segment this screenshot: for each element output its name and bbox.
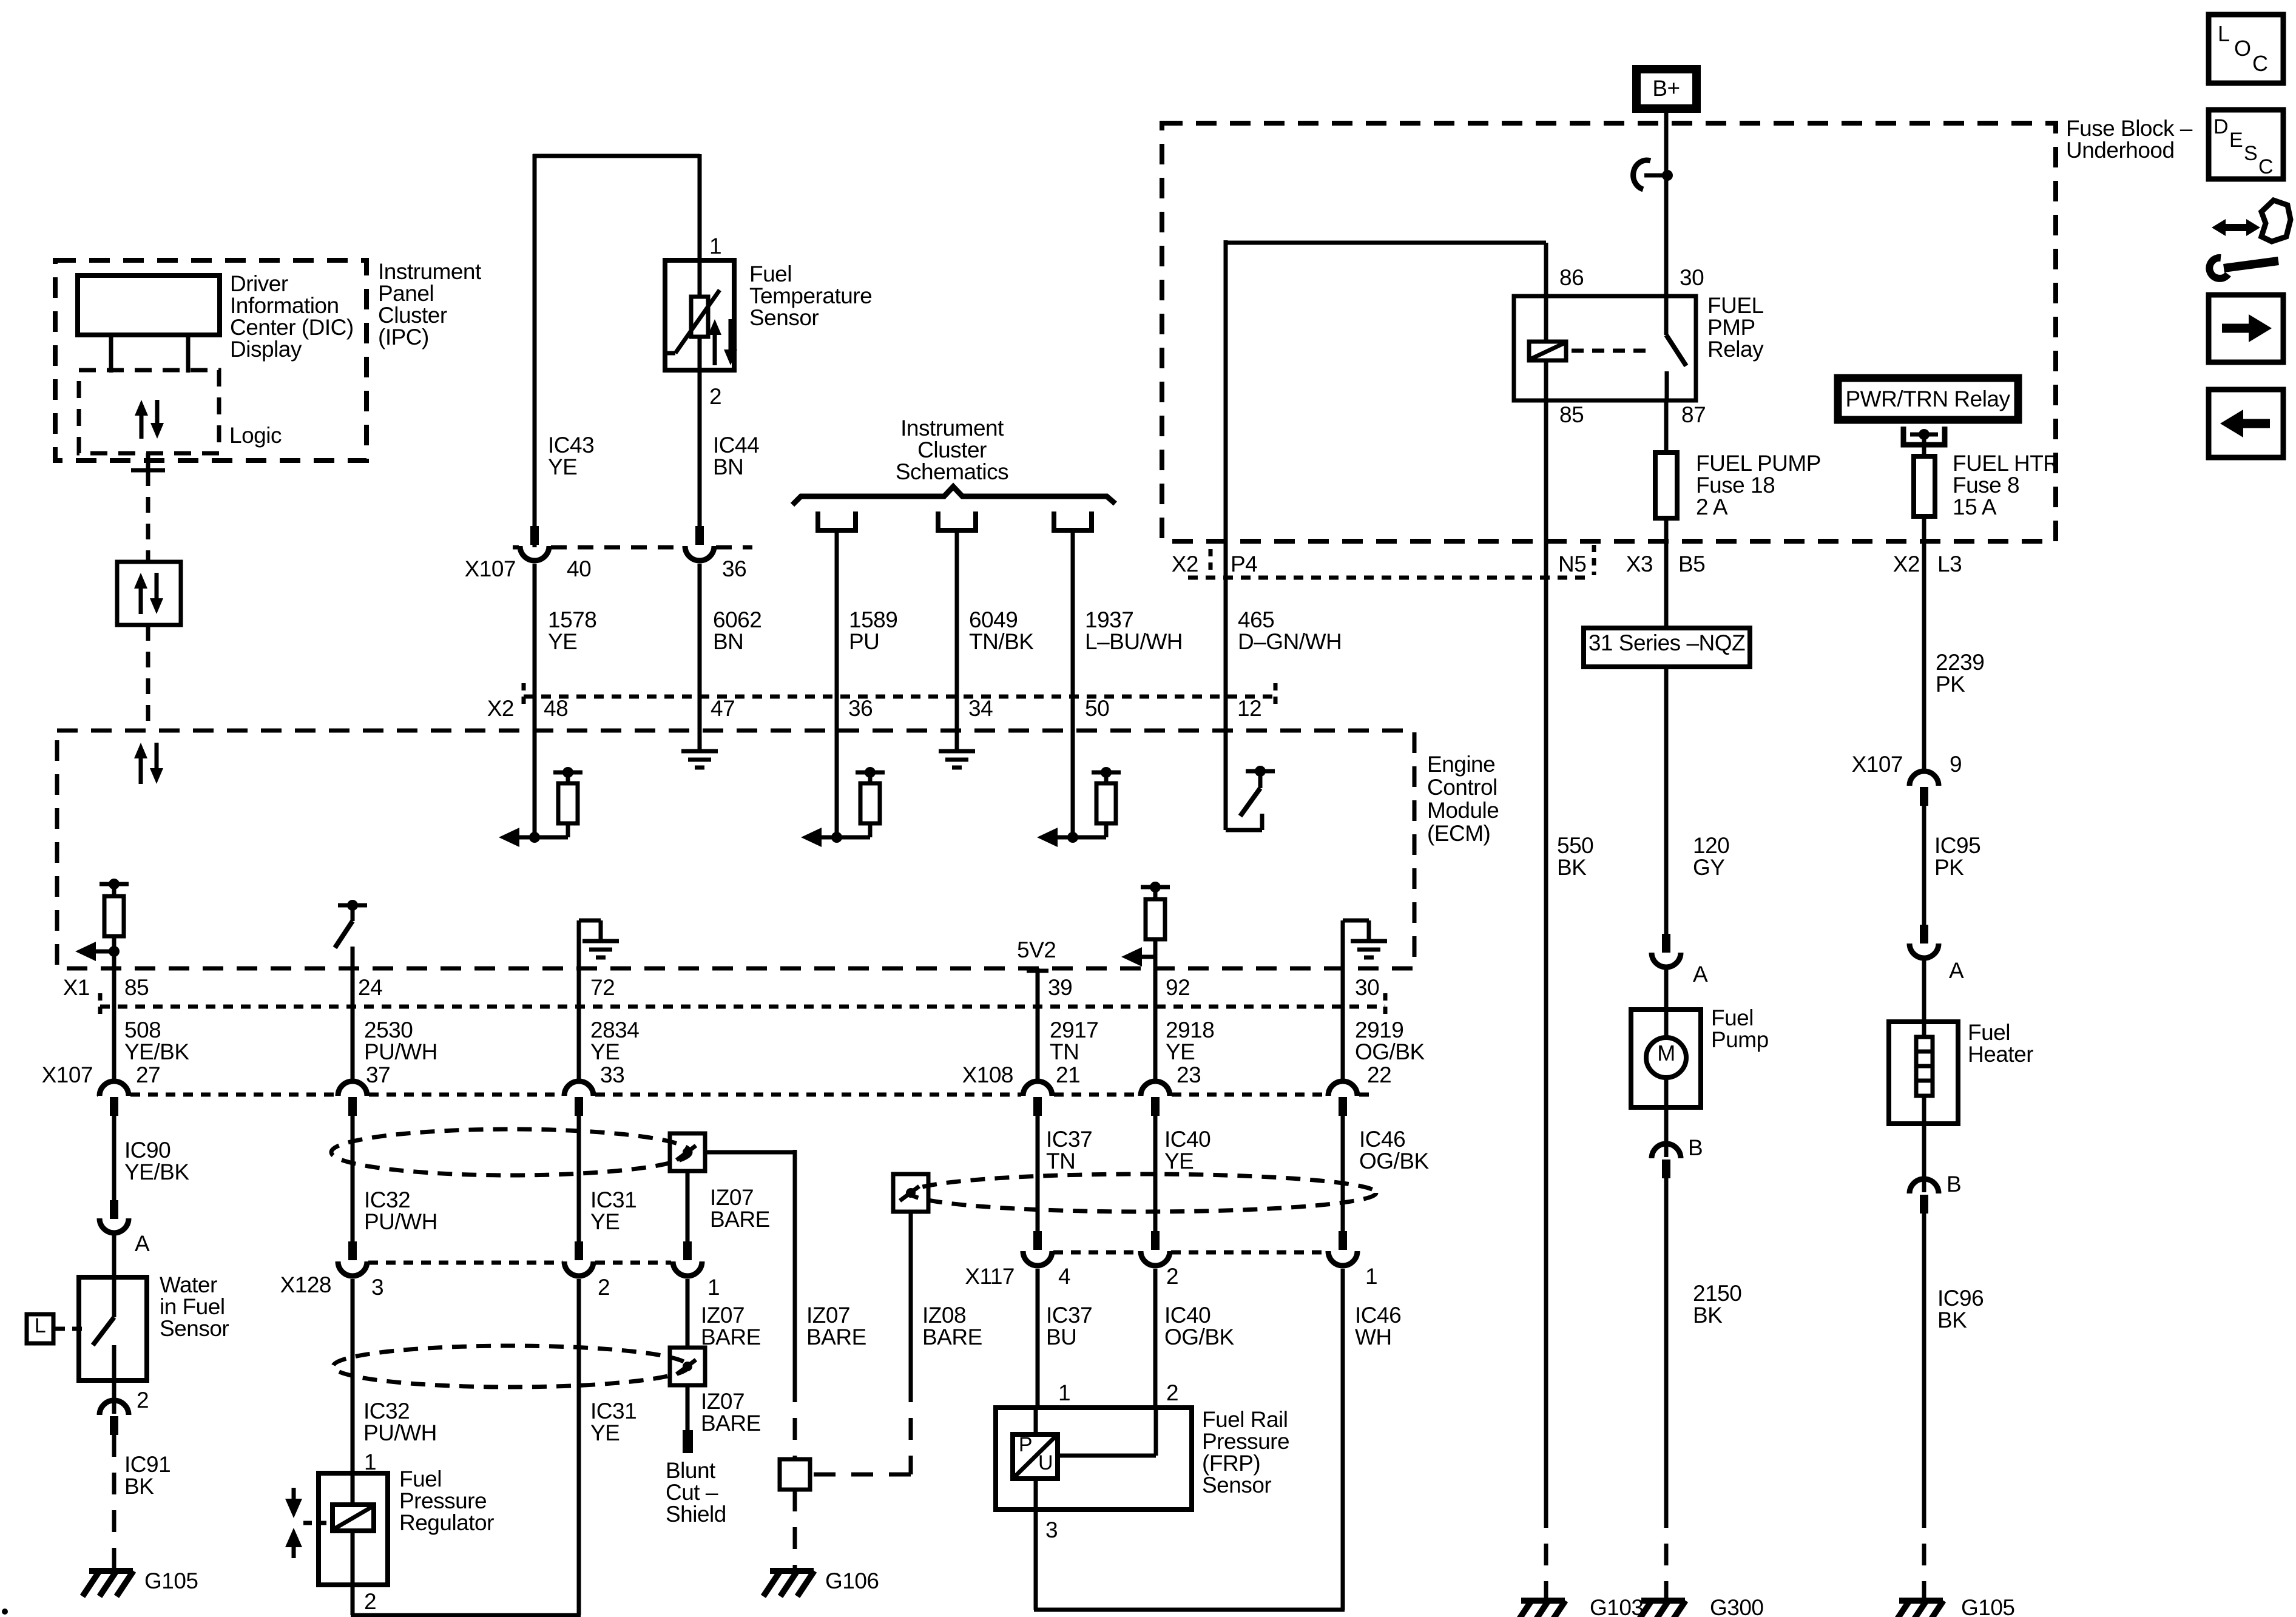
svg-text:X107: X107 xyxy=(465,556,516,581)
label IC46 WH xyxy=(1355,1303,1401,1349)
resistor tap on pin 85 branch xyxy=(100,879,129,936)
label IC95 PK xyxy=(1934,833,1980,880)
label IC37 TN xyxy=(1046,1127,1092,1173)
svg-text:X108: X108 xyxy=(962,1062,1013,1087)
up/down arrows inside ECM xyxy=(134,743,163,784)
label pin 72 xyxy=(590,975,615,1000)
label relay pin 86 xyxy=(1559,265,1584,290)
connector pin 2 wif xyxy=(100,1380,129,1435)
label 5V2 xyxy=(1017,937,1056,962)
wire 2150 BK dashed tail xyxy=(1664,1506,1669,1601)
svg-text:P: P xyxy=(1019,1433,1032,1456)
svg-text:47: 47 xyxy=(711,696,735,721)
svg-text:IZ07: IZ07 xyxy=(701,1303,745,1328)
wire pump to B xyxy=(1664,1107,1669,1157)
label FRP pin 2 xyxy=(1166,1380,1178,1405)
svg-text:1: 1 xyxy=(707,1275,720,1300)
label 1589 PU xyxy=(849,607,897,654)
svg-text:Logic: Logic xyxy=(229,423,282,448)
label X2 pin 50 xyxy=(1085,696,1109,721)
PWR/TRN relay box xyxy=(1838,378,2018,420)
wire IC46 OG/BK xyxy=(1341,1113,1345,1231)
fuse block X2 connector bracket xyxy=(1188,545,1594,578)
wire pin36 into ECM xyxy=(835,731,839,837)
svg-text:U: U xyxy=(1038,1451,1053,1474)
ground-L on pin 30 xyxy=(1343,920,1387,968)
svg-text:C: C xyxy=(2252,51,2268,76)
svg-text:PMP: PMP xyxy=(1707,315,1755,340)
DESC icon box xyxy=(2209,110,2283,179)
svg-text:2919: 2919 xyxy=(1355,1018,1403,1042)
svg-text:IC31: IC31 xyxy=(590,1187,636,1212)
wire 508 YE/BK xyxy=(112,968,116,1080)
wire IZ07 below square xyxy=(686,1171,690,1244)
svg-text:Control: Control xyxy=(1427,775,1497,800)
label pin A wif xyxy=(135,1231,150,1256)
connector X108 dome x=1904 xyxy=(1141,1081,1170,1116)
svg-text:Shield: Shield xyxy=(666,1502,726,1527)
svg-text:36: 36 xyxy=(722,556,746,581)
label relay pin 30 xyxy=(1680,265,1704,290)
connector X107 dome x=581 xyxy=(338,1081,367,1116)
svg-text:Relay: Relay xyxy=(1707,337,1764,362)
connector X107 dome x=954 xyxy=(564,1081,593,1116)
wire relay 85 to N5 xyxy=(1544,400,1548,541)
svg-text:YE: YE xyxy=(590,1420,620,1445)
svg-text:2: 2 xyxy=(364,1589,376,1614)
svg-text:G105: G105 xyxy=(144,1568,198,1593)
wire 120 GY lower xyxy=(1664,667,1669,934)
harness dashed ellipse right xyxy=(910,1174,1376,1212)
svg-text:B: B xyxy=(1688,1135,1703,1160)
label X2 pin 12 xyxy=(1237,696,1261,721)
svg-text:FUEL PUMP: FUEL PUMP xyxy=(1696,451,1821,476)
wire IC37 BU xyxy=(1036,1269,1040,1408)
svg-text:IC32: IC32 xyxy=(363,1399,410,1423)
svg-text:IC96: IC96 xyxy=(1937,1286,1984,1311)
svg-text:Information: Information xyxy=(230,293,339,318)
svg-text:Cluster: Cluster xyxy=(378,303,447,328)
wire IC95 PK xyxy=(1922,804,1926,925)
svg-text:2 A: 2 A xyxy=(1696,495,1728,519)
svg-text:1: 1 xyxy=(709,234,721,258)
svg-text:22: 22 xyxy=(1367,1062,1391,1087)
label 2918 YE xyxy=(1166,1018,1214,1064)
wire IC43 top loop xyxy=(533,154,700,547)
label X2 L3 xyxy=(1893,552,1962,576)
shield connection square IZ07 lower xyxy=(670,1348,705,1385)
svg-text:BK: BK xyxy=(124,1474,154,1499)
resistor/arrow on pin 36 xyxy=(801,767,885,847)
wire B+ to relay 30 xyxy=(1664,113,1669,296)
svg-text:2834: 2834 xyxy=(590,1018,639,1042)
svg-text:465: 465 xyxy=(1238,607,1274,632)
svg-text:X107: X107 xyxy=(1852,752,1903,777)
label IZ07 BARE upper xyxy=(710,1185,770,1232)
fuel rail pressure sensor box xyxy=(996,1408,1192,1510)
label IC43 YE xyxy=(548,433,594,479)
label pin 30 ecm xyxy=(1355,975,1379,1000)
label IC32 PU/WH upper xyxy=(364,1187,437,1234)
label 2834 YE xyxy=(590,1018,639,1064)
label 550 BK xyxy=(1557,833,1593,880)
label fuel pump pin B xyxy=(1688,1135,1703,1160)
connector X107/X108 dotted line xyxy=(97,1093,1373,1097)
label X2 pin 47 xyxy=(711,696,735,721)
label N5 xyxy=(1558,552,1586,576)
connector X128 pin 2 xyxy=(564,1241,593,1276)
svg-text:PU/WH: PU/WH xyxy=(364,1209,437,1234)
svg-text:in Fuel: in Fuel xyxy=(160,1294,225,1319)
label pin 37 xyxy=(366,1062,390,1087)
svg-text:Sensor: Sensor xyxy=(749,305,819,330)
left arrow icon box xyxy=(2209,390,2283,457)
splice clip on B+ feed xyxy=(1633,160,1673,189)
svg-text:120: 120 xyxy=(1693,833,1729,858)
svg-text:Instrument: Instrument xyxy=(378,259,482,284)
wire IC40 YE xyxy=(1153,1113,1158,1231)
svg-text:1589: 1589 xyxy=(849,607,897,632)
svg-text:L–BU/WH: L–BU/WH xyxy=(1085,629,1183,654)
label X117 pin 4 xyxy=(1058,1264,1070,1289)
label 120 GY xyxy=(1693,833,1729,880)
fuse block underhood dashed box xyxy=(1162,123,2056,541)
svg-text:IC44: IC44 xyxy=(713,433,759,457)
connector X107 pin 36 (IC44) xyxy=(685,526,714,561)
wire relay 86 feed xyxy=(1224,240,1546,541)
svg-text:P4: P4 xyxy=(1231,552,1257,576)
svg-text:39: 39 xyxy=(1048,975,1072,1000)
wire 2917 TN xyxy=(1036,968,1040,1080)
fuel temperature sensor B47 box xyxy=(665,260,734,370)
svg-text:BARE: BARE xyxy=(701,1411,761,1436)
Driver Information Center (DIC) display box xyxy=(78,275,220,335)
IPC connector bracket pin 50 xyxy=(1054,511,1092,530)
wire DIC leg left xyxy=(109,335,113,373)
connector X117 pin 4 xyxy=(1023,1231,1052,1266)
label FPR pin 2 xyxy=(364,1589,376,1614)
connector X107 upper row dotted line xyxy=(513,545,752,550)
svg-text:Pump: Pump xyxy=(1711,1027,1769,1052)
svg-text:B5: B5 xyxy=(1678,552,1705,576)
label X117 pin 2 xyxy=(1166,1264,1178,1289)
instrument panel cluster (IPC) dashed box xyxy=(55,260,366,461)
svg-text:Fuse 18: Fuse 18 xyxy=(1696,473,1775,498)
label X107 upper xyxy=(465,556,516,581)
wire fuse 18 to B5 xyxy=(1664,518,1669,541)
connector X128 dotted line xyxy=(368,1261,671,1265)
svg-text:IC37: IC37 xyxy=(1046,1303,1092,1328)
label pin 22 xyxy=(1367,1062,1391,1087)
svg-text:IC40: IC40 xyxy=(1164,1303,1210,1328)
label Instrument Panel Cluster (IPC) xyxy=(378,259,482,349)
connector X117 pin 2 xyxy=(1141,1231,1170,1266)
label fuel heater pin A xyxy=(1949,958,1964,983)
svg-text:BARE: BARE xyxy=(806,1325,866,1349)
svg-text:Fuse Block –: Fuse Block – xyxy=(2066,116,2193,141)
label Engine Control Module (ECM) xyxy=(1427,752,1499,846)
svg-text:IC91: IC91 xyxy=(124,1452,171,1477)
svg-text:B: B xyxy=(1947,1172,1961,1197)
svg-text:Fuel Rail: Fuel Rail xyxy=(1202,1407,1288,1432)
svg-text:YE: YE xyxy=(1166,1039,1195,1064)
wire 6062 BN xyxy=(698,564,702,731)
svg-text:YE: YE xyxy=(548,629,577,654)
svg-text:Fuel: Fuel xyxy=(1711,1005,1754,1030)
svg-text:(IPC): (IPC) xyxy=(378,325,429,349)
wire FRP pin3 to IC46 xyxy=(1034,1510,1345,1610)
label G105 left xyxy=(144,1568,198,1593)
svg-text:G300: G300 xyxy=(1710,1595,1764,1617)
label X2 pin 36 xyxy=(848,696,873,721)
fuel heater element xyxy=(1916,1022,1933,1124)
label IC37 BU xyxy=(1046,1303,1092,1349)
wire 6049 TN/BK xyxy=(955,530,959,731)
label pin 39 xyxy=(1048,975,1072,1000)
svg-text:508: 508 xyxy=(124,1018,161,1042)
thermistor symbol xyxy=(667,260,720,370)
svg-text:1937: 1937 xyxy=(1085,607,1133,632)
WIF switch xyxy=(93,1277,114,1380)
svg-text:X3: X3 xyxy=(1626,552,1653,576)
label relay pin 87 xyxy=(1681,402,1706,427)
connector-view icon xyxy=(2209,200,2291,279)
label X117 pin 1 xyxy=(1365,1264,1377,1289)
wire splice to ground G106 xyxy=(793,1490,797,1571)
svg-text:2150: 2150 xyxy=(1693,1281,1741,1306)
ground on pin 47 xyxy=(681,731,718,768)
label 2150 BK xyxy=(1693,1281,1741,1328)
wire IC37 TN xyxy=(1036,1113,1040,1231)
wire IC96 dashed tail xyxy=(1922,1506,1926,1601)
connector X107 pin 9 (fuel heater) xyxy=(1909,771,1939,806)
label pin 33 xyxy=(600,1062,624,1087)
svg-text:O: O xyxy=(2234,36,2251,61)
harness dashed ellipse left lower xyxy=(333,1346,689,1387)
svg-text:30: 30 xyxy=(1355,975,1379,1000)
connector X1 dotted line xyxy=(100,993,1385,1020)
svg-text:72: 72 xyxy=(590,975,615,1000)
svg-text:2: 2 xyxy=(709,384,721,409)
label 6049 TN/BK xyxy=(969,607,1034,654)
svg-text:PU/WH: PU/WH xyxy=(364,1039,437,1064)
label IZ07 BARE below X128 xyxy=(701,1303,761,1349)
svg-text:TN: TN xyxy=(1046,1149,1075,1173)
svg-text:33: 33 xyxy=(600,1062,624,1087)
connector X128 pin 1 xyxy=(673,1241,702,1276)
svg-text:5V2: 5V2 xyxy=(1017,937,1056,962)
svg-text:BU: BU xyxy=(1046,1325,1076,1349)
svg-text:Panel: Panel xyxy=(378,281,434,306)
label IC44 BN xyxy=(713,433,759,479)
label 2919 OG/BK xyxy=(1355,1018,1425,1064)
svg-text:2: 2 xyxy=(137,1388,149,1413)
svg-text:1: 1 xyxy=(364,1450,376,1474)
wire 2834 YE xyxy=(577,968,581,1080)
svg-text:36: 36 xyxy=(848,696,873,721)
svg-text:M: M xyxy=(1657,1041,1675,1065)
wire DIC leg right xyxy=(186,335,191,373)
wire 1578 YE xyxy=(533,564,537,697)
svg-text:Driver: Driver xyxy=(230,271,288,296)
svg-text:23: 23 xyxy=(1177,1062,1201,1087)
label IZ08 BARE xyxy=(922,1303,982,1349)
level sensor L box xyxy=(27,1314,85,1343)
svg-text:D: D xyxy=(2213,115,2228,138)
svg-text:2239: 2239 xyxy=(1936,650,1984,675)
connector X108 dome x=2213 xyxy=(1328,1081,1357,1116)
label IZ07 BARE mid-column xyxy=(806,1303,866,1349)
label X3 B5 xyxy=(1626,552,1706,576)
svg-text:TN: TN xyxy=(1050,1039,1079,1064)
svg-text:Cluster: Cluster xyxy=(917,437,987,462)
label Fuel Temperature Sensor xyxy=(749,262,872,330)
label pin 24 xyxy=(358,975,382,1000)
label pin 1 fuel temp sensor xyxy=(709,234,721,258)
svg-text:OG/BK: OG/BK xyxy=(1359,1149,1430,1173)
svg-text:G106: G106 xyxy=(825,1568,879,1593)
svg-text:Instrument: Instrument xyxy=(900,416,1004,441)
wire IC44 below sensor xyxy=(698,370,702,526)
wire IZ07 lower xyxy=(686,1279,690,1348)
svg-text:37: 37 xyxy=(366,1062,390,1087)
label Instrument Cluster Schematics xyxy=(896,416,1008,484)
ground-L on pin 72 xyxy=(579,920,619,968)
svg-text:Engine: Engine xyxy=(1427,752,1495,777)
svg-text:50: 50 xyxy=(1085,696,1109,721)
svg-text:N5: N5 xyxy=(1558,552,1586,576)
svg-text:TN/BK: TN/BK xyxy=(969,629,1034,654)
svg-text:2917: 2917 xyxy=(1050,1018,1098,1042)
svg-text:IZ07: IZ07 xyxy=(710,1185,754,1210)
label Blunt Cut - Shield xyxy=(666,1458,726,1527)
label IC40 YE xyxy=(1164,1127,1210,1173)
svg-text:L: L xyxy=(35,1314,46,1337)
label 2530 PU/WH xyxy=(364,1018,437,1064)
label 1937 L-BU/WH xyxy=(1085,607,1183,654)
label X107 pin 9 xyxy=(1852,752,1962,777)
label X107 lower xyxy=(42,1062,93,1087)
FUEL PMP relay box xyxy=(1514,296,1696,400)
label 1578 YE xyxy=(548,607,596,654)
ground G106 xyxy=(763,1571,814,1596)
svg-text:YE/BK: YE/BK xyxy=(124,1039,189,1064)
FRP P/U transducer xyxy=(1013,1408,1156,1510)
svg-text:86: 86 xyxy=(1559,265,1584,290)
label IC91 BK xyxy=(124,1452,171,1499)
svg-text:30: 30 xyxy=(1680,265,1704,290)
IPC connector bracket pin 36 xyxy=(818,511,856,530)
svg-text:B+: B+ xyxy=(1652,76,1680,101)
svg-text:IC43: IC43 xyxy=(548,433,594,457)
wire IZ07 dashed to splice xyxy=(793,1380,797,1459)
svg-text:12: 12 xyxy=(1237,696,1261,721)
svg-text:L: L xyxy=(2218,21,2230,46)
label X128 xyxy=(280,1272,331,1297)
B+ terminal box xyxy=(1636,69,1697,109)
logic dashed box xyxy=(79,370,219,453)
wire IZ07 to blunt cut xyxy=(686,1385,690,1430)
wire IC31 upper xyxy=(577,1113,581,1244)
wire IC32 lower xyxy=(351,1279,355,1473)
label X128 pin 1 xyxy=(707,1275,720,1300)
FPR valve symbol xyxy=(285,1488,331,1558)
svg-text:87: 87 xyxy=(1681,402,1706,427)
label IC96 BK xyxy=(1937,1286,1984,1332)
svg-text:IZ07: IZ07 xyxy=(701,1389,745,1414)
svg-text:Center (DIC): Center (DIC) xyxy=(230,315,354,340)
svg-text:PU: PU xyxy=(849,629,879,654)
label Water in Fuel Sensor xyxy=(160,1272,229,1341)
label FRP pin 3 xyxy=(1045,1517,1058,1542)
ground G105 right xyxy=(1893,1601,1943,1617)
switch on pin 24 xyxy=(335,900,367,968)
svg-text:BN: BN xyxy=(713,454,743,479)
IPC connector bracket pin 34 xyxy=(938,511,976,530)
fuel heater box xyxy=(1889,1022,1958,1124)
svg-text:Sensor: Sensor xyxy=(160,1316,229,1341)
svg-text:(FRP): (FRP) xyxy=(1202,1451,1260,1476)
label IC40 OG/BK xyxy=(1164,1303,1235,1349)
label IZ07 BARE lower xyxy=(701,1389,761,1436)
connector pin A water in fuel xyxy=(100,1200,129,1233)
label fuel heater pin B xyxy=(1947,1172,1961,1197)
water in fuel sensor box xyxy=(79,1277,147,1380)
wire to WIF sensor xyxy=(112,1234,116,1277)
svg-text:31 Series –NQZ: 31 Series –NQZ xyxy=(1589,630,1745,655)
engine control module (ECM) dashed box xyxy=(57,731,1414,968)
label G103 xyxy=(1590,1595,1644,1617)
svg-text:S: S xyxy=(2244,142,2257,165)
svg-text:GY: GY xyxy=(1693,855,1724,880)
svg-text:3: 3 xyxy=(1045,1517,1058,1542)
svg-text:IZ08: IZ08 xyxy=(922,1303,966,1328)
wire IC46 WH xyxy=(1341,1269,1345,1610)
svg-text:X2: X2 xyxy=(1172,552,1198,576)
blunt cut shield end xyxy=(683,1430,693,1453)
svg-text:YE: YE xyxy=(590,1039,620,1064)
fuel pump motor xyxy=(1646,1010,1686,1107)
wire 2919 OG/BK xyxy=(1341,968,1345,1080)
label IC90 YE/BK xyxy=(124,1138,189,1184)
harness dashed ellipse left upper xyxy=(331,1129,690,1175)
wire pin 39 5V2 stub xyxy=(1027,968,1048,971)
svg-text:Underhood: Underhood xyxy=(2066,138,2175,163)
relay switch blade xyxy=(1666,296,1686,400)
label Driver Information Center (DIC) Display xyxy=(230,271,354,362)
svg-text:Fuse 8: Fuse 8 xyxy=(1953,473,2019,498)
label 6062 BN xyxy=(713,607,761,654)
connector fuel heater pin B xyxy=(1909,1179,1939,1214)
svg-text:A: A xyxy=(1949,958,1964,983)
resistor/arrow on pin 48 xyxy=(499,767,582,847)
svg-text:FUEL HTR: FUEL HTR xyxy=(1953,451,2059,476)
svg-text:OG/BK: OG/BK xyxy=(1355,1039,1425,1064)
label X2 ECM xyxy=(487,696,514,721)
svg-text:A: A xyxy=(1693,962,1708,987)
label G300 xyxy=(1710,1595,1764,1617)
svg-text:34: 34 xyxy=(968,696,993,721)
svg-text:1: 1 xyxy=(1365,1264,1377,1289)
wire IC40 OG/BK xyxy=(1153,1269,1158,1408)
svg-text:Water: Water xyxy=(160,1272,217,1297)
svg-text:85: 85 xyxy=(1559,402,1584,427)
svg-text:4: 4 xyxy=(1058,1264,1070,1289)
svg-text:G103: G103 xyxy=(1590,1595,1644,1617)
svg-text:WH: WH xyxy=(1355,1325,1392,1349)
svg-text:X107: X107 xyxy=(42,1062,93,1087)
svg-text:PK: PK xyxy=(1936,672,1965,697)
